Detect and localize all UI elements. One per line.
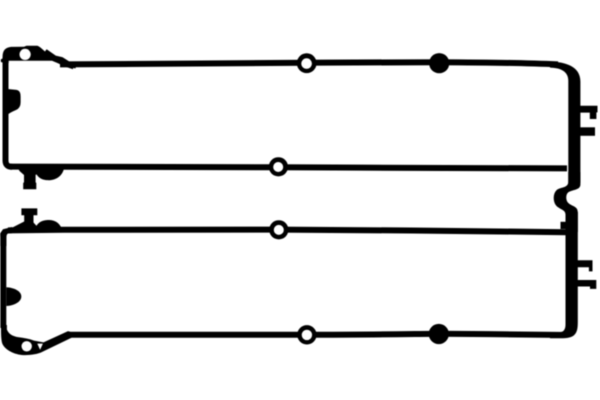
gasket 1 left corner beak xyxy=(1,57,6,64)
gasket 2 top bump xyxy=(35,220,63,231)
gasket 2 bottom rail xyxy=(68,334,567,335)
gasket 1 top-left bolt hole xyxy=(20,49,31,60)
gasket 2 bottom-left mounting lobe xyxy=(1,325,72,355)
gasket 2 left rail xyxy=(0,234,6,328)
gasket 1 bottom bump xyxy=(34,166,64,180)
gasket 1 right upper tab xyxy=(579,106,598,119)
gasket 1 bottom-left tab xyxy=(16,165,45,190)
interlocking end curl xyxy=(554,172,581,232)
gasket 2 top-left corner beak xyxy=(0,227,12,246)
gasket 1 bump-to-rail diagonal xyxy=(45,52,76,66)
gasket 1 top open bolt hole xyxy=(297,53,317,73)
gasket 1 bottom open bolt hole xyxy=(269,157,288,176)
gasket 1 top rail xyxy=(60,62,558,64)
gasket 2 bottom rubber grommet xyxy=(429,324,449,344)
gasket 2 right rail xyxy=(550,212,578,338)
gasket 2 top-left tab xyxy=(10,208,38,230)
gasket 1 right rail xyxy=(550,62,580,183)
gasket 2 right upper tab xyxy=(577,260,593,271)
gasket 1 left rail xyxy=(6,57,13,167)
gasket 2 bottom-left bolt hole xyxy=(22,341,32,351)
gasket 2 left side bulge xyxy=(6,287,21,306)
gasket 1 top rubber grommet xyxy=(429,53,449,73)
gasket 1 top-left mounting lobe xyxy=(3,46,73,70)
gasket 1 left side bulge xyxy=(8,89,21,115)
gasket 1 right lower tab xyxy=(579,127,595,136)
gasket 2 bottom open bolt hole xyxy=(297,325,316,344)
gasket 2 right lower tab xyxy=(577,280,597,289)
gasket 2 lobe junction notch xyxy=(37,344,43,350)
gasket 1 bottom rail xyxy=(10,167,567,169)
gasket 2 top rail xyxy=(8,230,567,233)
gasket 2 top open bolt hole xyxy=(269,220,288,239)
gasket 2 right rail step nub xyxy=(561,222,568,229)
